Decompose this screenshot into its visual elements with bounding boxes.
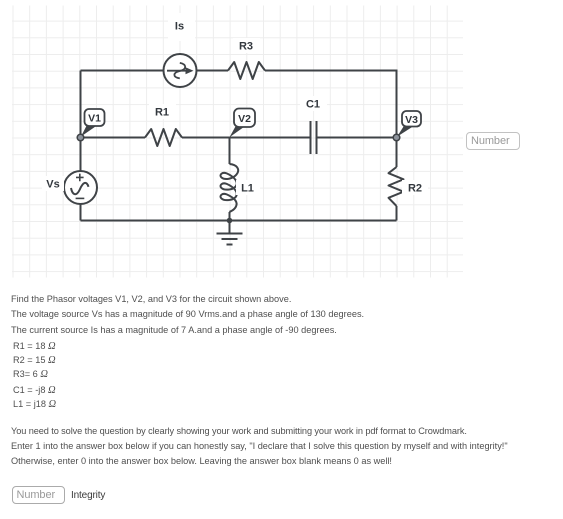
grid background <box>12 6 463 278</box>
current source Is <box>164 54 197 87</box>
answer input (phasor) <box>466 132 520 150</box>
resistor R1 <box>145 129 182 146</box>
wire L1 branch bottom <box>229 212 231 221</box>
node V1 callout <box>77 109 104 141</box>
wire R2 branch bottom <box>396 206 398 221</box>
wire top rail left <box>81 70 164 72</box>
svg-text:R1: R1 <box>155 107 169 119</box>
label C1 <box>300 96 327 111</box>
wire bottom rail <box>81 220 397 222</box>
svg-text:V2: V2 <box>238 113 251 125</box>
answer input (integrity) <box>12 486 66 504</box>
node V3 callout <box>393 111 421 141</box>
label L1 <box>236 180 260 195</box>
node V2 callout <box>230 109 256 138</box>
wire top rail mid <box>197 70 228 72</box>
label R2 <box>402 180 428 195</box>
svg-text:R3: R3 <box>239 41 253 53</box>
label R3 <box>233 38 260 53</box>
svg-text:R2: R2 <box>408 183 422 195</box>
resistor R2 <box>389 167 404 206</box>
svg-text:Is: Is <box>175 21 184 33</box>
wire middle rail 3 <box>318 137 397 139</box>
svg-text:V1: V1 <box>88 113 101 125</box>
wire L1 branch top <box>229 138 231 165</box>
svg-text:C1: C1 <box>306 99 320 111</box>
svg-text:V3: V3 <box>405 114 418 126</box>
svg-text:L1: L1 <box>241 183 254 195</box>
svg-text:Vs: Vs <box>46 179 59 191</box>
wire left vertical top <box>80 71 82 171</box>
wire top rail right + right drop <box>265 71 397 138</box>
wire middle rail 2 <box>182 137 310 139</box>
label R1 <box>149 104 176 119</box>
voltage source Vs <box>64 171 97 204</box>
capacitor C1 <box>311 121 317 154</box>
inductor L1 <box>220 164 238 212</box>
ground <box>217 221 243 245</box>
wire middle rail <box>81 137 146 139</box>
junction dot bottom <box>227 218 233 224</box>
wire left vertical bottom <box>80 205 82 221</box>
wire R2 branch top <box>396 138 398 168</box>
label Vs <box>42 176 64 191</box>
resistor R3 <box>228 62 265 79</box>
label Is <box>168 13 195 41</box>
